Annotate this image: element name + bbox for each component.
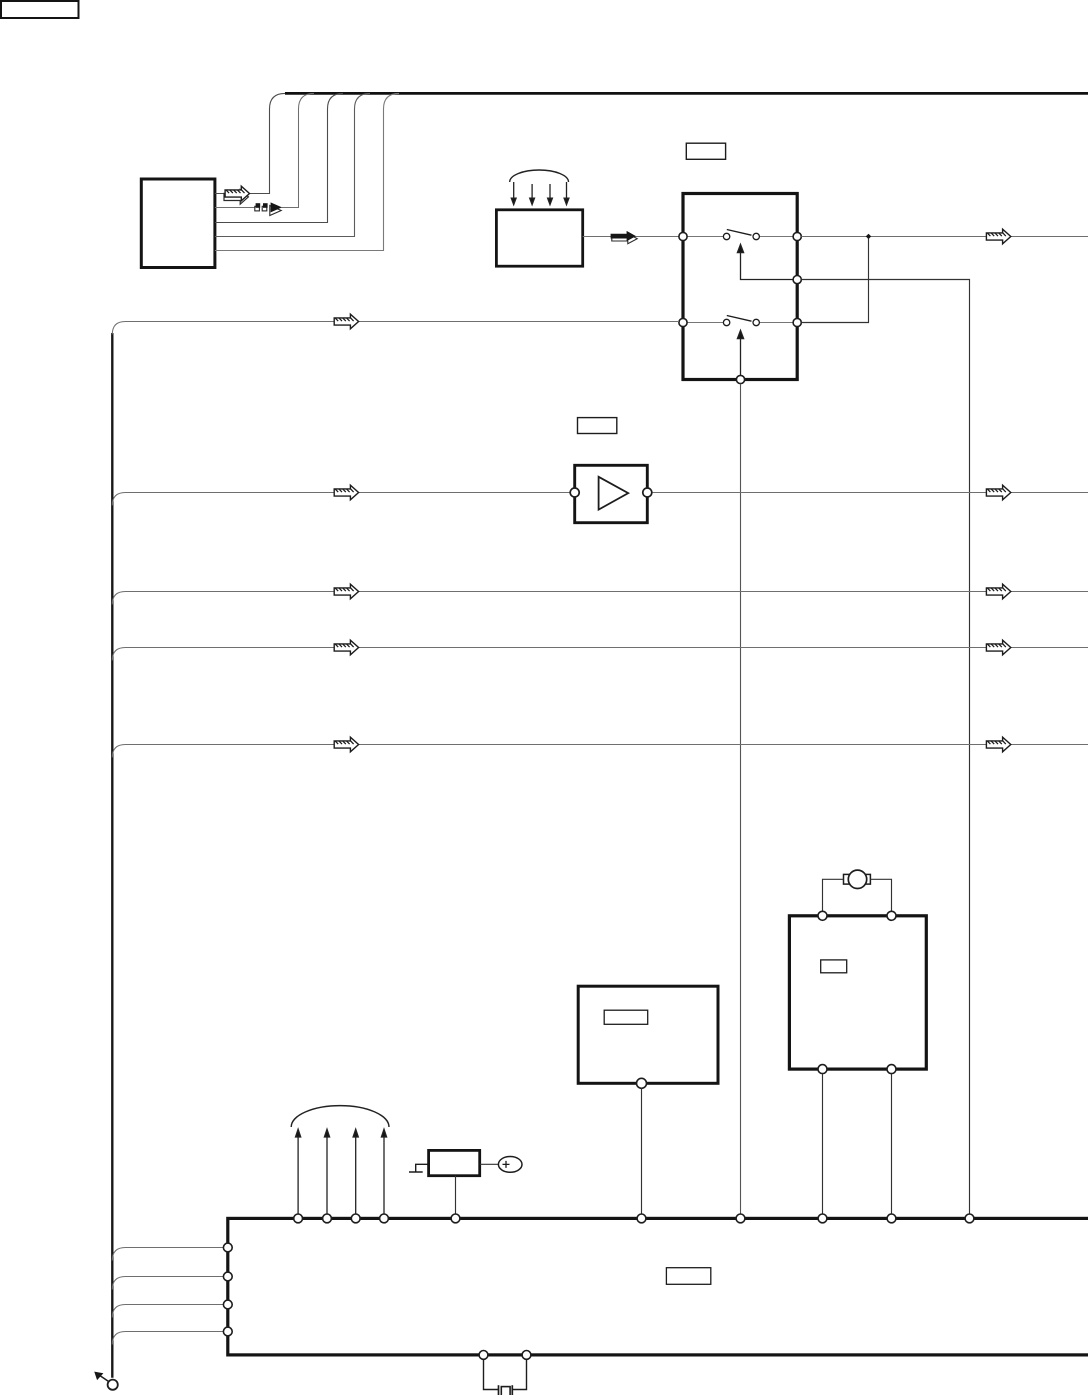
wires motor to block M top terminals	[823, 879, 892, 911]
wire from RM right and down to main unit	[801, 280, 969, 1215]
wire block S to battery symbol	[480, 1163, 499, 1165]
arrow row 5 left	[334, 737, 358, 752]
arrow row 2 right	[986, 485, 1010, 500]
junction J1	[866, 234, 871, 239]
label box for amplifier	[578, 418, 617, 434]
input arrows into block T1	[511, 182, 569, 205]
signal arrow A4 on R1 wire	[986, 229, 1010, 244]
wire row 4	[112, 648, 1088, 661]
motor M1 symbol	[844, 870, 871, 888]
wire T1 output to switch S1 input	[583, 236, 679, 238]
switch S2 blade	[727, 316, 752, 322]
block M terminal B1	[818, 1065, 827, 1074]
arrow row 3 left	[334, 584, 358, 599]
control arrow to S1	[737, 244, 797, 279]
arrow row 3 right	[986, 584, 1010, 599]
wire W2 (B1 pin2 to bus)	[215, 93, 314, 207]
switch terminal RM	[793, 276, 801, 284]
wire W1 (B1 pin1 to bus)	[215, 93, 285, 193]
wire from R1 to right edge	[801, 236, 1088, 238]
block S (small unit) with step icon	[409, 1150, 480, 1175]
label box for switch block	[686, 143, 725, 159]
signal arrow A1 on wire W1 (hatched, with shadow)	[224, 186, 250, 204]
switch terminal R2	[793, 318, 801, 326]
battery/plus indicator E1	[498, 1157, 522, 1173]
switch terminal B	[736, 375, 744, 383]
wire block C to main unit	[641, 1088, 643, 1214]
wire W5 (B1 pin5 to bus)	[215, 93, 399, 250]
wire W3 (B1 pin3 to bus)	[215, 93, 343, 222]
wire from R2 up to junction J1	[801, 239, 868, 323]
wire from switch terminal B down to main unit	[740, 384, 742, 1215]
wire switch row 1 internal	[683, 236, 797, 238]
switch block SW1	[683, 194, 797, 380]
main left vertical wire	[111, 333, 113, 1378]
main unit top terminals	[294, 1214, 974, 1223]
grouping arc over T1 inputs	[510, 170, 569, 182]
signal arrow A2 on wire W2 (dashed solid arrow with shadow)	[255, 202, 282, 215]
switch terminal L1	[679, 232, 687, 240]
switch S1 contact b	[753, 233, 759, 239]
top bus wire	[285, 92, 1088, 95]
wire switch row 2 internal	[683, 322, 797, 324]
wire row 3	[112, 592, 1088, 605]
main unit bottom terminals	[479, 1351, 531, 1360]
signal arrow A3 (solid, with shadow)	[611, 231, 638, 244]
block C terminal	[637, 1078, 647, 1088]
wire row 2 (through amplifier)	[112, 493, 1088, 506]
block T1 (source unit)	[496, 210, 582, 266]
crystal X1	[484, 1359, 527, 1395]
block M terminal B2	[887, 1065, 896, 1074]
label box in block M	[821, 960, 847, 973]
block M terminal T1	[818, 911, 827, 920]
arrow row 5 right	[986, 737, 1010, 752]
arrow row 1	[334, 314, 358, 329]
control arrow to S2	[737, 330, 743, 375]
switch S1 contact a	[723, 233, 729, 239]
wires block M to main unit	[823, 1074, 892, 1215]
arrow row 2 left	[334, 485, 358, 500]
block M (motor drive unit)	[789, 916, 926, 1069]
switch terminal L2	[679, 318, 687, 326]
switch S2 contact b	[753, 319, 759, 325]
switch S2 contact a	[723, 319, 729, 325]
block C (sensor unit)	[578, 986, 718, 1083]
main unit block G	[228, 1218, 1088, 1355]
grouping arc over main unit output arrows	[291, 1106, 389, 1127]
switch S1 blade	[727, 230, 752, 236]
wire row 5	[112, 745, 1088, 758]
block B1 (top-left unit)	[141, 179, 215, 268]
block M terminal T2	[887, 911, 896, 920]
main unit left terminals	[223, 1243, 232, 1336]
wire block S to main unit	[455, 1176, 457, 1215]
probe arrow at bottom of main vertical	[95, 1372, 118, 1390]
output arrows from main unit	[296, 1129, 387, 1214]
label box in block C	[604, 1010, 648, 1024]
label box in main unit	[666, 1268, 710, 1285]
page corner reference box	[1, 1, 79, 18]
amplifier U1	[570, 465, 652, 522]
switch terminal R1	[793, 232, 801, 240]
wire row 1 to switch L1	[112, 322, 679, 335]
wires main unit left pins to main vertical	[112, 1248, 223, 1345]
arrow row 4 left	[334, 640, 358, 655]
arrow row 4 right	[986, 640, 1010, 655]
wire W4 (B1 pin4 to bus)	[215, 93, 370, 236]
